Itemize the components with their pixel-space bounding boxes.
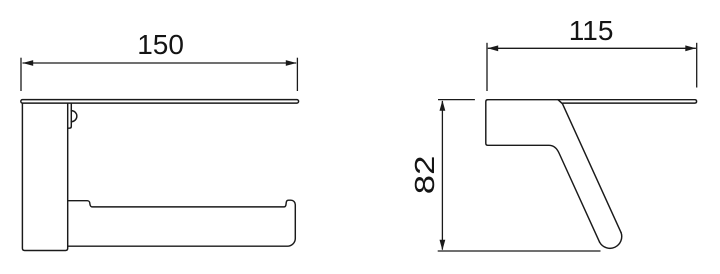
svg-text:150: 150 xyxy=(137,29,184,60)
svg-text:115: 115 xyxy=(569,15,614,46)
svg-text:82: 82 xyxy=(408,156,440,195)
